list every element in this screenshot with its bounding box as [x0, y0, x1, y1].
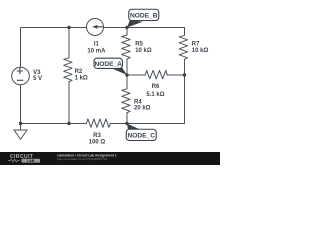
svg-text:R6: R6: [152, 84, 160, 90]
svg-text:5.1 kΩ: 5.1 kΩ: [146, 92, 164, 98]
V3 minus sign: [17, 79, 24, 81]
node dot node C junction: [125, 122, 128, 125]
svg-text:R7: R7: [192, 42, 200, 48]
node flag NODE_A: [94, 58, 127, 75]
watermark bar: [0, 152, 220, 165]
wire bottom right of R3: [110, 123, 127, 125]
junction dots: [19, 26, 186, 125]
logo CIRCUIT LAB: [8, 154, 40, 163]
component labels: [33, 41, 208, 145]
wire bottom left of R3: [21, 123, 87, 125]
resistor R7: [179, 35, 187, 59]
wire middle column node A to R4: [126, 75, 128, 89]
svg-text:20 kΩ: 20 kΩ: [134, 106, 151, 112]
V3 plus sign: [17, 68, 24, 80]
svg-text:NODE_C: NODE_C: [128, 132, 156, 139]
svg-text:NODE_B: NODE_B: [130, 13, 158, 20]
svg-text:NODE_A: NODE_A: [94, 61, 122, 68]
resistor R3: [86, 119, 110, 127]
wire right column R7 down to bottom corner: [127, 60, 185, 124]
svg-text:R2: R2: [75, 69, 83, 75]
ground: [14, 124, 27, 140]
svg-text:http://circuitlab.com/c/713q05: http://circuitlab.com/c/713q05887ze5: [57, 157, 108, 161]
node dot bottom R2: [67, 122, 70, 125]
watermark caption: [57, 153, 117, 161]
resistor R5: [122, 35, 130, 59]
svg-text:100 Ω: 100 Ω: [89, 140, 106, 146]
wire middle column top lead to R5: [126, 28, 128, 36]
wire top horizontal right segment: [103, 27, 184, 29]
svg-text:I1: I1: [94, 41, 100, 47]
node flag NODE_C: [126, 124, 156, 141]
wire middle column R4 to node C: [126, 113, 128, 124]
svg-text:R3: R3: [93, 133, 101, 139]
node flag NODE_B: [127, 9, 159, 27]
resistor R6: [145, 70, 167, 78]
wire R2 column top lead: [68, 28, 70, 58]
resistor R4: [122, 89, 130, 113]
node dot top R2: [67, 26, 70, 29]
I1 arrow: [92, 25, 97, 29]
svg-text:1 kΩ: 1 kΩ: [75, 76, 88, 82]
wire right column top lead to R7: [184, 28, 186, 36]
node dot ground junction: [19, 122, 22, 125]
wire top horizontal left segment: [21, 28, 87, 68]
wire left column below V3 to ground node: [20, 85, 22, 124]
wire node A row left of R6: [127, 74, 145, 76]
svg-text:R4: R4: [134, 99, 142, 105]
svg-text:10 mA: 10 mA: [87, 49, 106, 55]
resistor R2: [64, 58, 72, 82]
wire node A row right of R6: [167, 74, 185, 76]
node dot node A junction: [125, 73, 128, 76]
current source I1 circle: [87, 19, 104, 36]
voltage source V3 circle: [12, 67, 30, 85]
wire R2 column bottom lead: [68, 82, 70, 124]
node dot node B junction: [125, 26, 128, 29]
svg-text:R5: R5: [135, 42, 143, 48]
wire middle column R5 to node A: [126, 59, 128, 75]
svg-text:5 V: 5 V: [33, 76, 42, 82]
svg-text:10 kΩ: 10 kΩ: [192, 48, 209, 54]
svg-text:LAB: LAB: [27, 159, 35, 163]
svg-text:10 kΩ: 10 kΩ: [135, 48, 152, 54]
node dot R6 right junction: [183, 73, 186, 76]
